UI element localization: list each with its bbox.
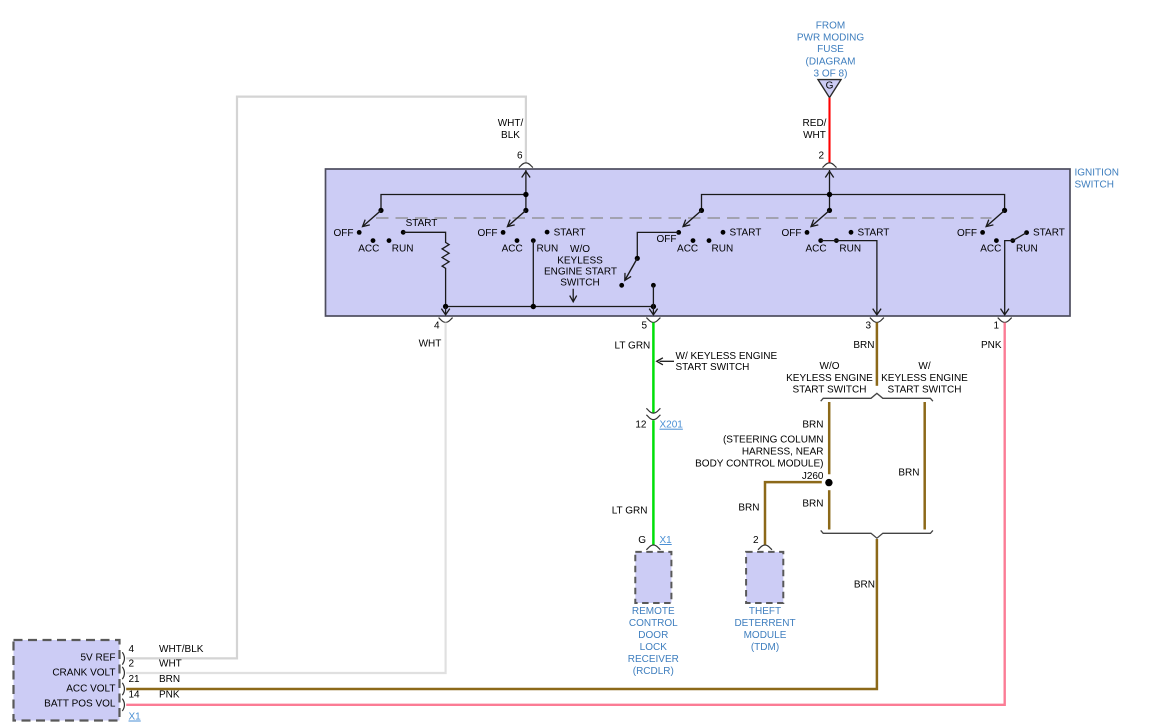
inline connector X201 (two facing arcs): [646, 408, 660, 419]
svg-text:DOOR: DOOR: [638, 630, 668, 641]
svg-text:RUN: RUN: [712, 244, 734, 255]
svg-text:KEYLESS ENGINE: KEYLESS ENGINE: [786, 373, 873, 384]
svg-text:PNK: PNK: [981, 340, 1002, 351]
svg-text:ACC: ACC: [980, 244, 1001, 255]
svg-text:WHT/BLK: WHT/BLK: [159, 644, 204, 655]
module X1 connector block (bottom left): [14, 640, 120, 721]
svg-text:BATT POS VOL: BATT POS VOL: [44, 699, 116, 710]
svg-text:X1: X1: [660, 535, 673, 546]
switch S2 contacts OFF ACC RUN START: [478, 228, 586, 255]
wire RED/WHT from G to ignition switch pin 2: [828, 98, 830, 164]
svg-text:CONTROL: CONTROL: [629, 618, 678, 629]
svg-text:PWR MODING: PWR MODING: [797, 32, 864, 43]
svg-text:START: START: [406, 218, 438, 229]
svg-text:3 OF 8): 3 OF 8): [814, 69, 848, 80]
pin 4 exit arrow: [441, 307, 449, 315]
svg-text:FUSE: FUSE: [817, 44, 844, 55]
svg-text:4: 4: [129, 644, 135, 655]
svg-text:ACC: ACC: [358, 244, 379, 255]
svg-text:2: 2: [753, 535, 759, 546]
svg-text:W/: W/: [918, 361, 930, 372]
wire WHT/BLK from block pin 4 up and over to ignition switch pin 6: [126, 97, 526, 659]
pin G connector arc at RCDLR: [646, 545, 660, 550]
wire PNK from pin 1 down and left to block pin 14: [126, 323, 1005, 705]
node: splice J260: [825, 479, 832, 486]
module TDM box: [746, 552, 783, 603]
svg-text:(STEERING COLUMN: (STEERING COLUMN: [723, 435, 824, 446]
switch S3 contacts OFF ACC RUN START: [657, 228, 762, 255]
wire: S3 OFF contact to keyless bypass switch: [637, 232, 678, 258]
wire: top bus segment switch3 to switch5: [702, 195, 1005, 211]
pin 3 connector arc below box: [870, 318, 884, 323]
svg-text:G: G: [638, 535, 646, 546]
svg-text:X201: X201: [660, 420, 684, 431]
svg-text:X1: X1: [129, 712, 142, 722]
svg-text:WHT: WHT: [159, 659, 182, 670]
svg-text:W/O: W/O: [570, 244, 590, 255]
switch S1 wiper arm: [363, 208, 384, 227]
svg-text:START SWITCH: START SWITCH: [676, 362, 750, 373]
svg-text:ACC VOLT: ACC VOLT: [66, 684, 115, 695]
label (STEERING COLUMN HARNESS, NEAR BODY CONTROL MODULE) J260: [695, 435, 824, 482]
label W/O KEYLESS ENGINE START SWITCH (left branch): [786, 361, 873, 396]
svg-text:ACC: ACC: [677, 244, 698, 255]
svg-text:LT GRN: LT GRN: [612, 505, 648, 516]
wire BRN from brace down and left to block pin 21: [126, 539, 877, 689]
svg-text:RUN: RUN: [839, 244, 861, 255]
module RCDLR box: [635, 552, 671, 603]
svg-text:RUN: RUN: [392, 244, 414, 255]
switch S4 contacts OFF ACC RUN START: [782, 228, 890, 255]
off-page source text: FROM PWR MODING FUSE (DIAGRAM 3 OF 8): [797, 20, 864, 79]
svg-text:BRN: BRN: [738, 503, 759, 514]
pin 14 connector arc on block: [122, 699, 124, 711]
svg-text:LT GRN: LT GRN: [615, 340, 651, 351]
switch S2 wiper arm: [507, 208, 528, 227]
switch S4 wiper arm: [811, 208, 832, 227]
switch S1 contacts OFF ACC RUN START: [334, 218, 438, 254]
svg-text:OFF: OFF: [782, 228, 802, 239]
wire: pin 6 exit vertical inside box with up arrow: [522, 170, 530, 210]
label REMOTE CONTROL DOOR LOCK RECEIVER (RCDLR): [628, 606, 679, 677]
svg-text:6: 6: [517, 151, 523, 162]
label RED/WHT: [803, 118, 827, 141]
pin 1 exit arrow: [1001, 309, 1009, 315]
svg-text:DETERRENT: DETERRENT: [734, 618, 795, 629]
svg-text:(DIAGRAM: (DIAGRAM: [806, 56, 856, 67]
svg-text:WHT: WHT: [803, 130, 826, 141]
wire: S2 RUN contact down to bottom bus: [532, 241, 534, 307]
node: S6 output contact: [651, 283, 656, 288]
svg-text:W/ KEYLESS ENGINE: W/ KEYLESS ENGINE: [676, 351, 778, 362]
switch S5 wiper arm: [986, 208, 1007, 227]
label IGNITION SWITCH: [1075, 168, 1119, 191]
svg-text:START: START: [858, 228, 890, 239]
pin 3 exit arrow: [873, 309, 881, 315]
svg-text:12: 12: [635, 420, 647, 431]
svg-text:HARNESS, NEAR: HARNESS, NEAR: [742, 447, 824, 458]
bottom brace rejoining BRN wire: [821, 530, 933, 538]
node: junction pin2 bus: [827, 192, 832, 197]
pin 2 connector arc at box top: [823, 163, 837, 168]
svg-text:BODY CONTROL MODULE): BODY CONTROL MODULE): [695, 459, 823, 470]
svg-text:2: 2: [129, 659, 135, 670]
wire BRN left branch upper segment: [828, 402, 831, 474]
svg-text:LOCK: LOCK: [640, 642, 668, 653]
svg-text:KEYLESS: KEYLESS: [557, 255, 603, 266]
svg-text:FROM: FROM: [816, 20, 845, 31]
switch S6 keyless bypass wiper arm: [625, 256, 640, 281]
wire: S6 output contact down to pin 5 bus: [652, 285, 654, 306]
svg-text:BRN: BRN: [159, 674, 180, 685]
svg-text:RED/: RED/: [803, 118, 827, 129]
svg-text:(RCDLR): (RCDLR): [633, 666, 674, 677]
svg-text:CRANK VOLT: CRANK VOLT: [52, 668, 115, 679]
pin 5 exit arrow: [649, 307, 657, 315]
ignition switch box: [326, 169, 1071, 316]
wire: pin 2 entry vertical inside box with up arrow: [825, 170, 833, 210]
svg-text:J260: J260: [802, 471, 824, 482]
svg-text:MODULE: MODULE: [744, 630, 787, 641]
svg-text:OFF: OFF: [478, 228, 498, 239]
node: junction at pin 5: [651, 304, 656, 309]
wire: S5 RUN to START diagonal link: [1013, 233, 1027, 241]
node: junction pin6 bus: [523, 192, 528, 197]
label W/ KEYLESS ENGINE START SWITCH (right branch): [881, 361, 968, 396]
svg-text:PNK: PNK: [159, 690, 180, 701]
svg-text:(TDM): (TDM): [751, 642, 779, 653]
wire: S5 RUN contact down to pin 1: [1005, 241, 1013, 315]
svg-text:START: START: [730, 228, 762, 239]
svg-text:KEYLESS ENGINE: KEYLESS ENGINE: [881, 373, 968, 384]
label W/O KEYLESS ENGINE START SWITCH with arrow to bus: [544, 244, 617, 302]
label W/ KEYLESS ENGINE START SWITCH with arrow to green wire: [657, 351, 778, 373]
wire LT GRN from X201 to RCDLR: [652, 420, 655, 544]
svg-text:SWITCH: SWITCH: [1075, 180, 1114, 191]
wire BRN right branch: [923, 402, 926, 530]
switch S5 contacts OFF ACC RUN START: [957, 228, 1065, 255]
pin 4 connector arc on block: [122, 652, 124, 664]
pin 2 connector arc at TDM: [758, 545, 772, 550]
node: junction S2 RUN on bus: [531, 304, 536, 309]
wire BRN left branch lower segment: [828, 490, 831, 529]
svg-text:START SWITCH: START SWITCH: [793, 385, 867, 396]
svg-text:RECEIVER: RECEIVER: [628, 654, 679, 665]
svg-text:REMOTE: REMOTE: [632, 606, 675, 617]
pin 2 connector arc on block: [122, 667, 124, 679]
svg-text:IGNITION: IGNITION: [1075, 168, 1119, 179]
svg-text:BLK: BLK: [501, 130, 520, 141]
svg-text:OFF: OFF: [334, 228, 354, 239]
svg-text:RUN: RUN: [537, 244, 559, 255]
node: junction at pin 4: [443, 304, 448, 309]
svg-text:START: START: [1033, 228, 1065, 239]
switch S3 wiper arm: [683, 208, 704, 227]
svg-text:G: G: [826, 81, 834, 92]
wire WHT from pin 4 down and left to block pin 2: [126, 323, 445, 674]
wire: bottom bus pin4 to pin5: [446, 306, 654, 308]
pin 5 connector arc below box: [646, 318, 660, 323]
node: S6 lower contact: [619, 283, 624, 288]
svg-text:WHT/: WHT/: [498, 118, 524, 129]
svg-text:W/O: W/O: [820, 361, 840, 372]
svg-text:14: 14: [129, 690, 141, 701]
svg-text:2: 2: [818, 151, 824, 162]
svg-text:BRN: BRN: [898, 468, 919, 479]
svg-text:BRN: BRN: [854, 580, 875, 591]
svg-text:START: START: [554, 228, 586, 239]
svg-text:OFF: OFF: [957, 228, 977, 239]
svg-text:OFF: OFF: [657, 234, 677, 245]
dashed gang line inside ignition switch: [376, 217, 992, 219]
svg-text:SWITCH: SWITCH: [560, 277, 599, 288]
svg-text:3: 3: [865, 321, 871, 332]
pin 21 connector arc on block: [122, 683, 124, 695]
svg-text:BRN: BRN: [853, 340, 874, 351]
svg-text:21: 21: [129, 674, 141, 685]
pin 6 connector arc at box top: [519, 163, 533, 168]
wire: top bus segment switch1 to pin6 column: [381, 195, 526, 211]
off-page connector G (triangle): [818, 80, 841, 98]
svg-text:RUN: RUN: [1016, 244, 1038, 255]
wire BRN from J260 to TDM pin 2: [765, 482, 822, 544]
wire BRN from pin 3 down to brace: [876, 323, 879, 386]
wire: S4 ACC-RUN jumper down to pin 3: [821, 241, 877, 315]
label THEFT DETERRENT MODULE (TDM): [734, 606, 795, 653]
svg-text:ENGINE START: ENGINE START: [544, 266, 617, 277]
svg-text:4: 4: [434, 321, 440, 332]
svg-text:5V REF: 5V REF: [80, 652, 115, 663]
svg-text:WHT: WHT: [419, 339, 442, 350]
label WHT/BLK wire at pin 6: [498, 118, 524, 141]
pin 4 connector arc below box: [439, 318, 453, 323]
svg-text:ACC: ACC: [502, 244, 523, 255]
svg-text:START SWITCH: START SWITCH: [888, 385, 962, 396]
svg-text:BRN: BRN: [802, 499, 823, 510]
svg-text:5: 5: [641, 321, 647, 332]
svg-text:BRN: BRN: [802, 420, 823, 431]
wire LT GRN from pin 5 to X201: [652, 323, 655, 414]
svg-text:THEFT: THEFT: [749, 606, 781, 617]
top brace splitting BRN wire: [821, 393, 933, 401]
svg-text:1: 1: [993, 321, 999, 332]
resistor R from S1 START contact to pin 4 bus: [403, 232, 449, 306]
pin 1 connector arc below box: [998, 318, 1012, 323]
svg-text:ACC: ACC: [805, 244, 826, 255]
